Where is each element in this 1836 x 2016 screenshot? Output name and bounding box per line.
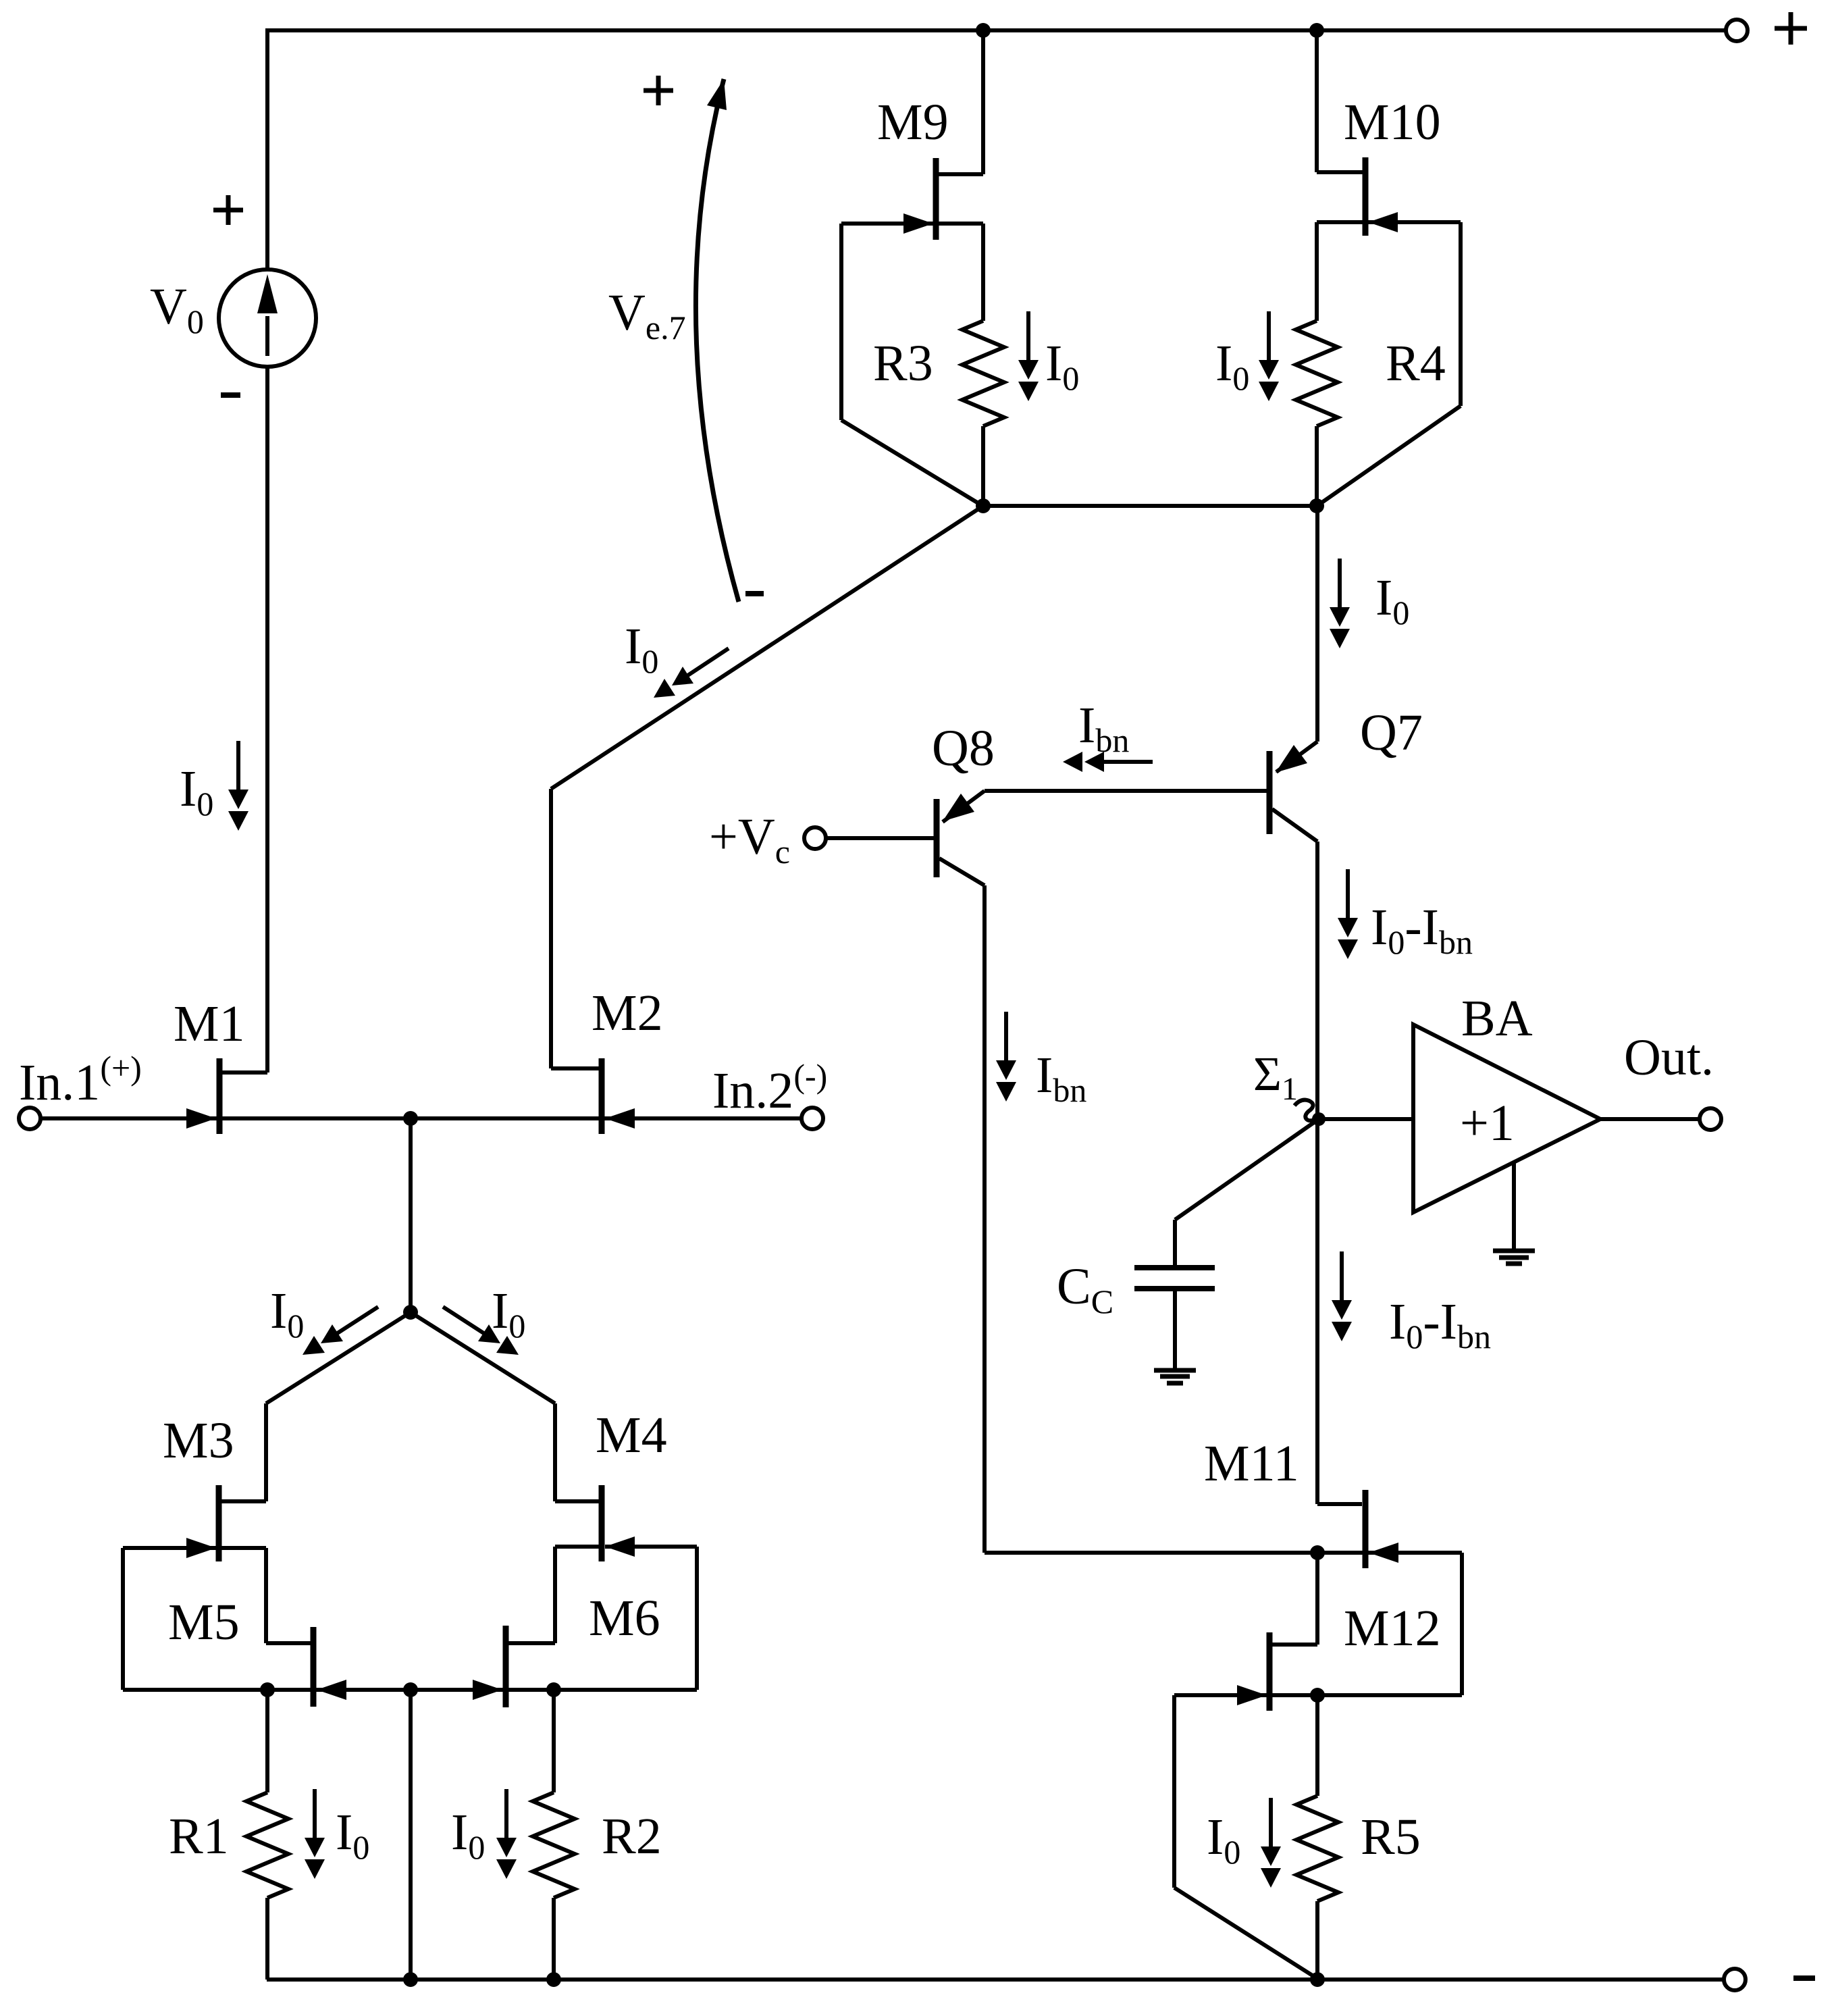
wire: M3-M5 left loop (121, 1548, 125, 1690)
annotation: I0 arrow (R1) (305, 1789, 325, 1879)
wire: M4 source to M6 drain (508, 1547, 600, 1643)
label: Q7 (1360, 704, 1423, 761)
node: M11/M12 junction (1310, 1545, 1325, 1560)
svg-text:M4: M4 (596, 1407, 667, 1464)
wire: M11 source/gate line (985, 1551, 1462, 1555)
transistor Q8 base bar (934, 799, 940, 877)
ground: BA (1493, 1251, 1535, 1264)
wire: negative supply rail (bottom) (267, 1978, 1723, 1982)
wire: input gate line In.1 to In.2 (41, 1116, 801, 1120)
label: I0 (to M4) (492, 1283, 525, 1345)
wire: Q7 base to Q8 emitter (943, 791, 1267, 822)
label: S1 (1253, 1047, 1298, 1107)
svg-text:M12: M12 (1344, 1600, 1441, 1657)
wire: tail vertical (409, 1118, 413, 1312)
node: center bottom junction (403, 1682, 418, 1697)
wire: M9 left loop (841, 224, 984, 507)
svg-text:M3: M3 (163, 1412, 234, 1469)
transistor Q8 emitter arrow (943, 794, 974, 821)
svg-text:M2: M2 (592, 985, 663, 1041)
wire: M3 drain (221, 1403, 266, 1501)
label: + (supply) (1775, 12, 1807, 45)
label: I0 (Q7 emitter) (1375, 569, 1409, 631)
label: Q8 (932, 720, 995, 777)
svg-text:Out.: Out. (1624, 1029, 1714, 1086)
wire: bottom gate line (left half) (123, 1688, 411, 1692)
terminal: +Vc input (804, 827, 826, 849)
label: M3 (163, 1412, 234, 1469)
label: R5 (1361, 1809, 1421, 1865)
label: Ibn (base) (1078, 697, 1129, 759)
terminal: Out (1700, 1108, 1721, 1130)
wire: M12 source line (1272, 1693, 1462, 1697)
svg-text:BA: BA (1461, 990, 1533, 1047)
wire: R3-R4 connector (983, 504, 1317, 508)
wire: M9 drain (939, 30, 983, 174)
wire: M3 gate from loop (123, 1546, 216, 1550)
transistor M6 channel bar (503, 1626, 509, 1707)
svg-text:M10: M10 (1344, 94, 1441, 151)
wire: S1 to M11 drain (1317, 1119, 1362, 1504)
annotation: I0 arrow (R2) (496, 1789, 517, 1879)
wire: M12 left loop (1174, 1695, 1317, 1978)
transistor M4 gate arrow (605, 1536, 635, 1557)
wire: positive supply rail (top) (265, 30, 1725, 269)
label: + (Ve.7) (644, 76, 673, 105)
node: tail split (403, 1305, 418, 1320)
label: R3 (873, 335, 933, 392)
label: R1 (169, 1808, 229, 1865)
terminal: In.1 input (19, 1108, 41, 1129)
resistor R4 (1296, 321, 1338, 506)
wire: S1 to buffer (1319, 1117, 1413, 1121)
annotation: I0 arrow (Q7 emitter) (1330, 559, 1350, 648)
label: M10 (1344, 94, 1441, 151)
transistor M6 gate arrow (473, 1680, 502, 1700)
wire: center vertical to bottom rail (409, 1690, 413, 1980)
label: Ve.7 (608, 284, 686, 346)
wire: BA ground stem (1512, 1162, 1516, 1249)
wire: M11-M12 right loop (1460, 1553, 1464, 1695)
resistor R5 (1296, 1695, 1338, 1980)
svg-text:R1: R1 (169, 1808, 229, 1865)
annotation: Ibn arrow (Q8 collector) (996, 1012, 1016, 1102)
label: BA (1461, 990, 1533, 1047)
transistor M1 channel bar (217, 1058, 223, 1134)
label: I0 (to M2) (625, 618, 658, 680)
annotation: I0 arrow (R3) (1018, 311, 1039, 401)
transistor M12 gate arrow (1237, 1685, 1267, 1705)
label: +1 (1460, 1095, 1515, 1152)
transistor M5 gate arrow (317, 1680, 346, 1700)
wire: tail diagonal to M3 (266, 1312, 411, 1403)
transistor M9 gate arrow (903, 213, 933, 234)
annotation: I0 arrow (to M4) (443, 1307, 519, 1355)
label: Ibn (Q8 collector) (1036, 1047, 1086, 1109)
transistor M1 gate arrow (186, 1108, 216, 1129)
label: I0 (R2) (451, 1804, 485, 1866)
node: top rail / M10 drain junction (1309, 23, 1324, 38)
annotation: I0 arrow (to M3) (303, 1307, 378, 1355)
node: R4 bottom junction (1309, 498, 1324, 513)
transistor M11 channel bar (1363, 1490, 1369, 1568)
wire: M12 gate from loop (1174, 1693, 1267, 1697)
node: R1 top junction (260, 1682, 275, 1697)
label: M2 (592, 985, 663, 1041)
voltage source V0 (219, 269, 316, 367)
svg-text:M11: M11 (1204, 1435, 1299, 1492)
transistor M3 gate arrow (186, 1538, 216, 1558)
transistor M9 channel bar (933, 158, 939, 240)
node: summing node S1 (1312, 1112, 1326, 1126)
label: M1 (174, 996, 245, 1052)
transistor Q7 emitter arrow (1276, 745, 1307, 773)
transistor M3 channel bar (216, 1485, 222, 1561)
svg-text:R3: R3 (873, 335, 933, 392)
transistor Q7 base bar (1267, 751, 1273, 834)
label: M6 (589, 1590, 660, 1647)
svg-text:Q8: Q8 (932, 720, 995, 777)
transistor M4 channel bar (599, 1485, 605, 1561)
wire: M10 gate from loop (1368, 220, 1461, 224)
svg-text:M1: M1 (174, 996, 245, 1052)
label: I0-Ibn (lower) (1389, 1293, 1491, 1355)
node: bottom rail / R5-M12 junction (1310, 1972, 1325, 1987)
resistor R1 (246, 1690, 288, 1980)
wire: BA output (1600, 1117, 1699, 1121)
node: input pair drain junction (403, 1111, 418, 1126)
annotation: I0-Ibn arrow (upper) (1338, 869, 1358, 959)
label: I0 (R1) (336, 1804, 369, 1866)
annotation: S1 pointer squiggle (1294, 1100, 1317, 1121)
annotation: I0 arrow (R5) (1261, 1798, 1281, 1888)
svg-text:R5: R5 (1361, 1809, 1421, 1865)
wire: V0 to M1 source (265, 367, 269, 1072)
node: R3 bottom junction (976, 498, 991, 513)
label: Cc (1057, 1258, 1113, 1320)
label: +Vc (709, 808, 790, 871)
label: - (Ve.7) (745, 591, 764, 596)
terminal: In.2 input (802, 1108, 823, 1129)
wire: Q7 emitter (1276, 506, 1317, 772)
svg-text:R2: R2 (602, 1808, 662, 1865)
label: + above V0 (213, 195, 243, 225)
label: - (supply) (1793, 1975, 1815, 1981)
wire: M2 source (551, 1066, 604, 1070)
svg-text:M5: M5 (168, 1594, 240, 1651)
wire: M9 gate from loop (841, 222, 933, 226)
wire: M3 source to M5 drain (221, 1548, 311, 1643)
svg-text:M9: M9 (877, 94, 949, 151)
label: M11 (1204, 1435, 1299, 1492)
transistor M2 gate arrow (605, 1108, 635, 1129)
annotation: I0 arrow (to M2) (654, 648, 729, 698)
wire: bottom gate line (right half) (411, 1688, 697, 1692)
svg-text:Q7: Q7 (1360, 704, 1423, 761)
svg-text:M6: M6 (589, 1590, 660, 1647)
wire: Q7 collector (1272, 809, 1317, 1119)
resistor R3 (962, 321, 1004, 506)
resistor R2 (533, 1690, 575, 1980)
transistor M12 channel bar (1267, 1632, 1273, 1711)
wire: M10 drain (1317, 30, 1363, 172)
transistor M10 channel bar (1363, 157, 1369, 236)
transistor M10 gate arrow (1368, 212, 1398, 232)
wire: S1 to Cc (1175, 1119, 1319, 1266)
node: R2 top junction (546, 1682, 561, 1697)
wire: diagonal to M2 source (551, 506, 983, 1068)
label: I0 (left branch) (180, 760, 213, 823)
node: R5 top junction (1310, 1688, 1325, 1703)
wire: Q8 base (827, 836, 934, 840)
label: I0 (R5) (1207, 1809, 1240, 1871)
wire: M4 drain (555, 1403, 600, 1501)
wire: Q8 collector (939, 858, 985, 1553)
capacitor Cc plates (1134, 1268, 1215, 1289)
annotation: Ve.7 arc arrow (696, 79, 739, 602)
annotation: Ibn arrow (base) (1063, 752, 1153, 772)
node: top rail / M9 drain junction (976, 23, 991, 38)
wire: M10 right loop (1316, 222, 1461, 507)
buffer amplifier BA (1413, 1025, 1600, 1212)
transistor M2 channel bar (599, 1058, 605, 1134)
label: Out. (1624, 1029, 1714, 1086)
label: M9 (877, 94, 949, 151)
label: I0 (to M3) (270, 1283, 304, 1345)
svg-text:+1: +1 (1460, 1095, 1515, 1152)
label: V0 (150, 278, 204, 340)
label: M12 (1344, 1600, 1441, 1657)
wire: M12 drain (1272, 1553, 1317, 1645)
terminal: + supply (1726, 20, 1748, 41)
wire: M4 gate from loop (605, 1545, 697, 1549)
svg-text:R4: R4 (1386, 335, 1446, 392)
annotation: I0-Ibn arrow (lower) (1332, 1251, 1352, 1341)
label: R4 (1386, 335, 1446, 392)
wire: M9 source (939, 224, 983, 321)
label: I0 (R3) (1045, 335, 1079, 397)
annotation: I0 arrow (R4) (1259, 311, 1279, 401)
label: In.2(-) (712, 1057, 827, 1119)
wire: M4-M6 right loop (695, 1547, 699, 1690)
wire: M1 source (217, 1070, 267, 1075)
label: In.1(+) (19, 1049, 142, 1111)
wire: M10 source (1317, 222, 1363, 321)
wire: tail diagonal to M4 (411, 1312, 555, 1403)
wire: Cc to ground (1173, 1291, 1177, 1369)
node: bottom rail / center tail junction (403, 1972, 418, 1987)
annotation: I0 arrow (left branch) (228, 741, 248, 831)
label: I0 (R4) (1215, 335, 1249, 397)
label: M4 (596, 1407, 667, 1464)
label: M5 (168, 1594, 240, 1651)
label: R2 (602, 1808, 662, 1865)
transistor M5 channel bar (311, 1627, 317, 1707)
label: - below V0 (221, 392, 240, 398)
label: I0-Ibn (upper) (1371, 899, 1473, 961)
ground: Cc (1154, 1370, 1196, 1383)
terminal: - supply (1724, 1969, 1746, 1990)
node: bottom rail / R2 junction (546, 1972, 561, 1987)
transistor M11 gate arrow (1369, 1543, 1398, 1563)
